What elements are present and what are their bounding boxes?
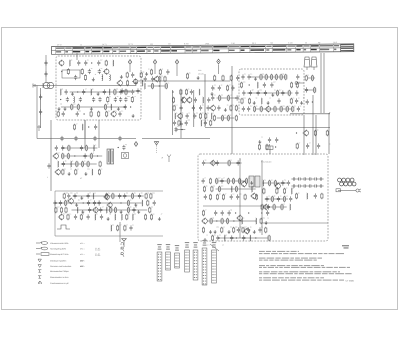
- resistor R88: [132, 193, 134, 199]
- capacitor C80: [39, 94, 42, 99]
- capacitor C69: [308, 184, 313, 187]
- capacitor C80: [122, 145, 125, 150]
- resistor R92: [127, 200, 129, 206]
- capacitor C119: [267, 204, 270, 209]
- resistor R110: [216, 178, 218, 184]
- resistor R59: [254, 106, 256, 112]
- capacitor C89: [87, 193, 90, 198]
- capacitor C62: [264, 90, 267, 95]
- ground: [58, 107, 61, 111]
- resistor R139: [202, 227, 204, 233]
- electrolytic can C91: [311, 57, 317, 67]
- inductor L37: [291, 188, 292, 194]
- svg-text:KB 2: KB 2: [252, 42, 256, 45]
- capacitor C51: [211, 95, 214, 100]
- node n12: [74, 155, 75, 156]
- wire terminal link: [298, 82, 304, 84]
- wire rail: [217, 117, 235, 119]
- wire left drop 2: [50, 120, 52, 191]
- ground: [120, 210, 123, 214]
- capacitor C76: [80, 145, 83, 150]
- resistor R145: [268, 235, 270, 241]
- bandswitch box: [62, 70, 80, 78]
- resistor R7: [107, 96, 109, 102]
- svg-text:Weerstanden in ohm: Weerstanden in ohm: [50, 276, 69, 279]
- resistor R8: [131, 96, 133, 102]
- capacitor C117: [277, 196, 280, 201]
- wire rail: [247, 92, 293, 94]
- resistor R120: [216, 194, 218, 200]
- svg-text:B 250: B 250: [184, 42, 189, 45]
- wire rail: [308, 77, 315, 79]
- legend row 8: Condensatoren in pF: [39, 281, 70, 285]
- connector strip S5: [193, 242, 198, 280]
- node n17: [83, 202, 84, 203]
- capacitor C75: [61, 145, 64, 150]
- transistor T27: [201, 218, 207, 225]
- resistor R25: [180, 89, 182, 95]
- node n5: [130, 106, 131, 107]
- capacitor C73: [317, 143, 320, 148]
- antenna input terminal: [33, 84, 35, 88]
- capacitor C95: [87, 200, 90, 205]
- inductor L21: [58, 161, 59, 167]
- capacitor C38: [180, 105, 183, 110]
- capacitor C105: [129, 225, 132, 230]
- node n15: [118, 147, 119, 148]
- wire rail: [148, 85, 168, 87]
- resistor R105: [150, 214, 152, 220]
- capacitor C109: [202, 178, 205, 183]
- resistor R126: [263, 188, 265, 194]
- resistor R47: [271, 74, 273, 80]
- capacitor C52: [236, 95, 239, 100]
- capacitor C10: [98, 69, 101, 74]
- capacitor C63: [281, 90, 284, 95]
- capacitor C91: [123, 193, 126, 198]
- resistor R125: [274, 180, 276, 186]
- resistor R119: [209, 194, 211, 200]
- ground: [271, 93, 274, 97]
- svg-text:Toonregeling 80%: Toonregeling 80%: [50, 247, 66, 250]
- resistor R83: [73, 124, 75, 130]
- capacitor C34: [151, 76, 154, 81]
- capacitor C92: [138, 193, 141, 198]
- resistor R71: [68, 145, 70, 151]
- capacitor C67: [242, 106, 245, 111]
- resistor R21: [159, 76, 161, 82]
- resistor R46: [265, 74, 267, 80]
- transistor T19: [58, 214, 64, 221]
- capacitor C44: [173, 120, 176, 125]
- inductor L6: [91, 89, 92, 95]
- svg-text:45: 45: [305, 41, 307, 44]
- capacitor C99: [88, 207, 91, 212]
- capacitor C43: [193, 113, 196, 118]
- capacitor C114: [281, 180, 284, 185]
- inductor L22: [70, 161, 71, 167]
- wire strip to tuner: [76, 53, 78, 60]
- resistor R89: [145, 193, 147, 199]
- alignment triangle F: [154, 142, 158, 145]
- resistor R131: [261, 204, 263, 210]
- resistor R44: [235, 115, 237, 121]
- inductor L27: [77, 207, 78, 213]
- resistor R61: [274, 106, 276, 112]
- resistor R90: [150, 193, 152, 199]
- wire rail: [55, 202, 142, 204]
- selenium rectifier stack: [338, 178, 356, 186]
- inductor L13: [182, 97, 183, 103]
- resistor R78: [87, 161, 89, 167]
- capacitor C50: [231, 85, 234, 90]
- svg-text:405: 405: [150, 43, 153, 46]
- capacitor C70: [305, 87, 308, 92]
- capacitor C118: [289, 196, 292, 201]
- resistor R34: [222, 75, 224, 81]
- capacitor C107: [216, 160, 219, 165]
- inductor L32: [132, 214, 133, 220]
- resistor R142: [242, 227, 244, 233]
- inductor L7: [109, 89, 110, 95]
- capacitor C31: [136, 88, 139, 93]
- capacitor C35: [190, 89, 193, 94]
- test point diamond E: [134, 142, 137, 147]
- capacitor C45: [185, 120, 188, 125]
- resistor R114: [245, 178, 247, 184]
- wire rail: [217, 97, 237, 99]
- resistor R140: [221, 227, 223, 233]
- antenna symbol small: [167, 155, 171, 163]
- resistor R6: [125, 89, 127, 95]
- wire rail: [175, 129, 185, 131]
- transistor T7: [250, 193, 256, 200]
- resistor R77: [82, 161, 84, 167]
- resistor R147: [321, 193, 323, 199]
- wire diamond D stem: [218, 65, 220, 75]
- node n2: [61, 71, 62, 72]
- wire AGC line left: [37, 138, 136, 140]
- resistor R50: [285, 74, 287, 80]
- wire tuner bus: [56, 85, 136, 87]
- ground: [75, 203, 78, 207]
- ferrite rod mark: [37, 125, 41, 131]
- capacitor C36: [194, 97, 197, 102]
- transistor T6 driver: [240, 181, 246, 188]
- capacitor C124: [237, 227, 240, 232]
- resistor R23: [151, 83, 153, 89]
- ground: [211, 92, 214, 96]
- node n4: [60, 99, 61, 100]
- transistor T4 AF: [67, 198, 73, 205]
- inductor L28: [106, 207, 107, 213]
- node n10: [312, 101, 313, 102]
- capacitor C60: [291, 177, 296, 180]
- resistor R149: [266, 144, 268, 150]
- resistor R76: [76, 161, 78, 167]
- wire rail: [121, 90, 141, 92]
- capacitor C54: [241, 74, 244, 79]
- resistor R12: [57, 111, 59, 117]
- inductor L34: [231, 186, 232, 192]
- wire rail: [264, 206, 287, 208]
- transistor T5: [117, 80, 123, 87]
- node n18: [120, 202, 121, 203]
- capacitor C39: [192, 105, 195, 110]
- resistor R68: [314, 130, 316, 136]
- capacitor C128: [230, 235, 233, 240]
- connector strip S2: [166, 244, 171, 270]
- node n23: [233, 220, 234, 221]
- transistor T10 output 2: [243, 228, 249, 235]
- wire drop x85b: [84, 120, 86, 148]
- node n19: [235, 212, 236, 213]
- capacitor C81: [60, 136, 63, 141]
- resistor R108: [228, 160, 230, 166]
- inductor L5: [60, 89, 61, 95]
- wire drop x232: [231, 66, 233, 154]
- transistor T8: [186, 97, 192, 104]
- connector strip S6: [202, 240, 207, 285]
- ground: [68, 172, 71, 176]
- wire drop x172: [172, 90, 174, 135]
- capacitor C90: [118, 193, 121, 198]
- svg-text:3 1300: 3 1300: [95, 254, 100, 257]
- ground: [300, 101, 303, 105]
- capacitor C26: [76, 111, 79, 116]
- resistor R48: [275, 74, 277, 80]
- wire left drop 1: [40, 88, 42, 128]
- capacitor C84: [44, 71, 47, 76]
- wire rail: [215, 180, 248, 182]
- svg-text:MA²: MA²: [80, 259, 84, 262]
- wire output row: [262, 222, 328, 224]
- IF amplifier section dashed outline: [239, 69, 304, 115]
- svg-text:MA²: MA²: [80, 265, 84, 268]
- capacitor C87: [67, 193, 70, 198]
- ground: [258, 140, 261, 144]
- wire left margin drop: [36, 86, 38, 139]
- ground: [145, 72, 148, 76]
- resistor R80: [62, 169, 64, 175]
- resistor R35: [230, 75, 232, 81]
- resistor R81: [75, 169, 77, 175]
- wire volume drop: [269, 146, 271, 154]
- wire drop x194: [193, 90, 195, 127]
- ground: [64, 107, 67, 111]
- capacitor C66: [295, 98, 298, 103]
- resistor R40: [235, 105, 237, 111]
- resistor R66: [311, 75, 313, 81]
- resistor R107: [124, 225, 126, 231]
- wire AGC line right: [142, 138, 210, 140]
- wire speaker diagonal: [210, 244, 219, 251]
- capacitor C71: [306, 99, 309, 104]
- fuse: [336, 189, 341, 192]
- capacitor C11: [74, 75, 77, 80]
- resistor R54: [277, 90, 279, 96]
- capacitor C112: [230, 194, 233, 199]
- resistor R62: [280, 106, 282, 112]
- resistor R106: [117, 225, 119, 231]
- resistor R115: [203, 186, 205, 192]
- inductor L20: [93, 145, 94, 151]
- resistor R74: [67, 153, 69, 159]
- IF transformer L10: [107, 149, 114, 164]
- resistor R102: [80, 214, 82, 220]
- capacitor C126: [258, 227, 261, 232]
- capacitor C17: [66, 97, 69, 102]
- resistor R113: [239, 178, 241, 184]
- resistor R15: [106, 111, 108, 117]
- capacitor C77: [84, 153, 87, 158]
- transistor T10: [210, 105, 216, 112]
- capacitor C103: [87, 214, 90, 219]
- terminal circle: [295, 82, 298, 85]
- inductor L30: [115, 214, 116, 220]
- inductor L8: [74, 97, 75, 103]
- inductor L10: [142, 80, 143, 86]
- ground: [209, 230, 212, 234]
- resistor R38: [227, 95, 229, 101]
- resistor R104: [145, 214, 147, 220]
- svg-text:Instelpunt spoelen: Instelpunt spoelen: [50, 259, 66, 262]
- inductor L2: [113, 60, 114, 66]
- wire detector row: [290, 113, 330, 115]
- capacitor C49: [218, 85, 221, 90]
- ground: [254, 77, 257, 81]
- legend row 4: Instelpunt spoelen: [38, 259, 86, 262]
- capacitor C129: [242, 235, 245, 240]
- ground: [117, 107, 120, 111]
- resistor R85: [63, 193, 65, 199]
- capacitor C7: [84, 60, 87, 65]
- transistor T1 RF: [132, 78, 138, 84]
- svg-text:Volumecontrole 88%: Volumecontrole 88%: [50, 242, 69, 245]
- resistor R141: [233, 227, 235, 233]
- meter box: [122, 153, 129, 159]
- resistor R39: [230, 105, 232, 111]
- resistor R37: [219, 95, 221, 101]
- resistor R36: [227, 85, 229, 91]
- svg-text:3 1300: 3 1300: [95, 249, 100, 252]
- resistor R58: [290, 98, 292, 104]
- capacitor C115: [287, 180, 290, 185]
- wire rail: [218, 237, 270, 239]
- ground: [214, 230, 217, 234]
- tuner section dashed outline: [56, 56, 141, 120]
- resistor R17: [140, 72, 142, 78]
- label TS reference: [342, 245, 349, 248]
- capacitor C93: [53, 200, 56, 205]
- wire rail: [216, 188, 256, 190]
- resistor R137: [227, 218, 229, 224]
- ground: [158, 217, 161, 221]
- inductor L11: [144, 83, 145, 89]
- resistor R22: [164, 76, 166, 82]
- resistor R30: [205, 113, 207, 119]
- test point diamond A: [128, 60, 131, 65]
- AF preamp box outline: [55, 191, 163, 236]
- capacitor C121: [221, 210, 224, 215]
- resistor R64: [292, 106, 294, 112]
- capacitor C84: [118, 136, 121, 141]
- wire drop x304: [303, 115, 305, 155]
- resistor R72: [85, 145, 87, 151]
- svg-text:PHIL.SOUND: PHIL.SOUND: [261, 161, 272, 164]
- inductor L41: [224, 235, 225, 241]
- input jack: [43, 82, 54, 88]
- ground: [253, 230, 256, 234]
- capacitor C142: [314, 193, 317, 198]
- wire rail: [263, 182, 287, 184]
- capacitor C69: [297, 106, 300, 111]
- resistor R43: [227, 115, 229, 121]
- wire audio vertical 2: [261, 160, 263, 235]
- capacitor C101: [132, 207, 135, 212]
- capacitor C66: [291, 184, 296, 187]
- wire B+ rail 2: [323, 53, 325, 113]
- wire can 2 lead: [313, 67, 315, 70]
- wire triangle F stem: [156, 146, 158, 154]
- capacitor C100: [99, 207, 102, 212]
- resistor R75: [90, 153, 92, 159]
- inductor L23: [92, 169, 93, 175]
- resistor R67: [314, 87, 316, 93]
- wire antenna input: [33, 85, 56, 87]
- capacitor C6: [77, 60, 80, 65]
- capacitor C116: [265, 196, 268, 201]
- wire rail: [72, 209, 148, 211]
- ground: [120, 75, 123, 79]
- resistor R60: [260, 106, 262, 112]
- resistor R123: [256, 194, 258, 200]
- resistor R2: [67, 68, 69, 74]
- transistor T9 output 1: [236, 215, 242, 222]
- ground: [134, 203, 137, 207]
- resistor R18: [127, 80, 129, 86]
- inductor L36: [263, 180, 264, 186]
- svg-text:OC 71: OC 71: [102, 43, 107, 46]
- capacitor C47: [236, 75, 239, 80]
- capacitor C125: [247, 227, 250, 232]
- resistor R42: [221, 115, 223, 121]
- wire rail: [73, 195, 144, 197]
- resistor R97: [110, 207, 112, 213]
- capacitor C20: [98, 97, 101, 102]
- svg-text:1400: 1400: [205, 42, 209, 45]
- capacitor C64: [295, 90, 298, 95]
- node n14: [88, 126, 89, 127]
- ground: [137, 210, 140, 214]
- inductor L12: [199, 89, 200, 95]
- legend row 6: Meetwaarden Philips: [38, 270, 69, 273]
- capacitor C78: [62, 161, 65, 166]
- resistor R11: [104, 104, 106, 110]
- ground: [204, 238, 207, 242]
- resistor R91: [65, 200, 67, 206]
- capacitor C21: [114, 97, 117, 102]
- inductor L19: [261, 98, 262, 104]
- resistor R79: [99, 161, 101, 167]
- resistor R16: [126, 72, 128, 78]
- inductor L31: [121, 214, 122, 220]
- resistor R127: [276, 188, 278, 194]
- capacitor C55: [247, 74, 250, 79]
- resistor R69: [326, 130, 328, 136]
- resistor R148: [258, 144, 260, 150]
- node n3: [77, 91, 78, 92]
